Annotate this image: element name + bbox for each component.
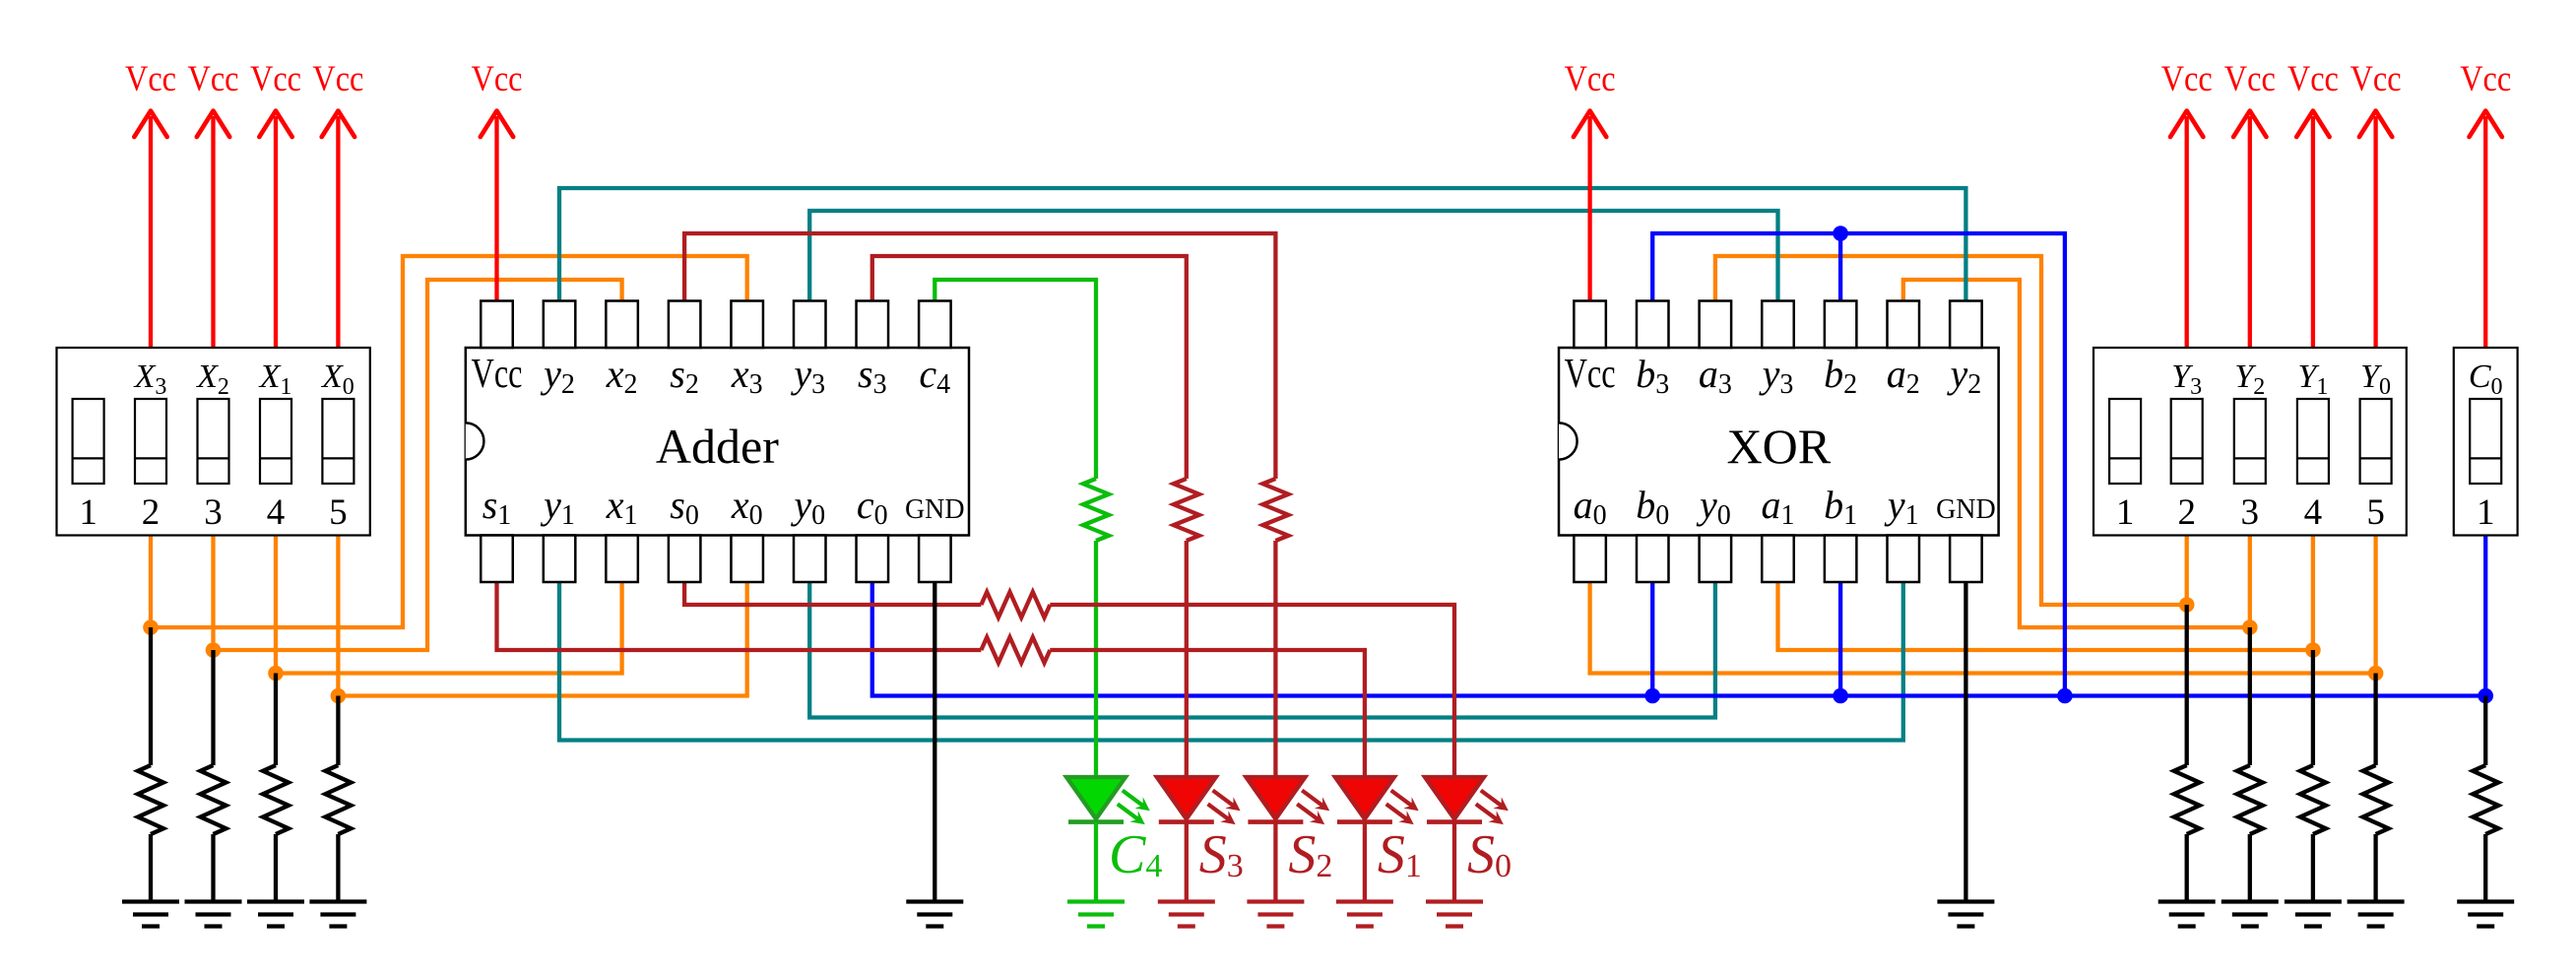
Vcc arrow above switch X1 — [250, 59, 301, 348]
wire Y1 switch to XOR a1 (orange net Y1) — [1778, 536, 2313, 651]
svg-text:Vcc: Vcc — [2351, 59, 2402, 99]
svg-text:XOR: XOR — [1727, 419, 1832, 474]
switch SW-Y position 1 — [2109, 399, 2141, 533]
wire X0 switch to Adder x0 (orange net X0) — [338, 536, 746, 696]
ground S2 LED (dark red) — [1247, 902, 1304, 927]
IC XOR bottom pin a1 — [1762, 483, 1795, 582]
switch SW-X position 5 (X0) — [320, 358, 354, 533]
wire X2 switch to Adder x2 (orange net X2) — [214, 280, 622, 650]
IC XOR bottom pin GND — [1936, 494, 1996, 582]
wire X1 switch to Adder x1 (orange net X1) — [276, 536, 622, 674]
Vcc arrow above switch C0 — [2460, 59, 2511, 348]
wire black pulldown Y0 — [2373, 674, 2377, 766]
junction dot orange Y3 — [2179, 597, 2195, 613]
wire XOR y2 to Adder y2 (teal) — [559, 188, 1965, 301]
resistor pulldown Y2 — [2237, 765, 2263, 834]
wire Adder s2 to S2 resistor/LED (dark red) — [684, 233, 1275, 479]
IC Adder top pin c4 — [919, 301, 951, 401]
junction dot blue at b1 — [1833, 688, 1848, 704]
resistor pulldown Y0 — [2363, 765, 2389, 834]
LED S1 — [1335, 777, 1422, 885]
switch SW-Y position 3 (Y2) — [2234, 358, 2266, 533]
wire S0 LED to ground (dark red) — [1452, 822, 1456, 902]
wire blue drop to XOR b0 — [1650, 582, 1654, 696]
wire XOR y3 to Adder y3 (teal) — [809, 211, 1777, 301]
IC Adder top pin s2 — [669, 301, 701, 401]
svg-text:GND: GND — [905, 494, 965, 525]
wire S1 LED to ground (dark red) — [1363, 822, 1367, 902]
IC XOR top pin b3 — [1636, 301, 1669, 401]
wire black pulldown X0 — [336, 696, 340, 766]
Vcc arrow above switch X0 — [312, 59, 363, 348]
resistor pulldown X1 — [263, 765, 289, 834]
svg-text:Vcc: Vcc — [188, 59, 239, 99]
svg-text:Vcc: Vcc — [125, 59, 176, 99]
junction dot orange X3 — [143, 619, 159, 635]
IC Adder bottom pin c0 — [857, 483, 889, 582]
wire Adder c4 to C4 resistor/LED (green) — [934, 280, 1096, 479]
wire resistor to ground Y3 — [2185, 834, 2189, 902]
wire S2 LED to ground (dark red) — [1273, 822, 1277, 902]
wire black pulldown X1 — [274, 674, 278, 766]
switch SW-Y position 4 (Y1) — [2297, 358, 2329, 533]
wire S3 resistor to LED — [1185, 541, 1189, 777]
wire Y0 switch to XOR a0 (orange net Y0) — [1590, 536, 2376, 674]
DIP switch block SW-C0 — [2454, 348, 2518, 536]
wire resistor to ground Y1 — [2311, 834, 2315, 902]
ground Y3 — [2158, 902, 2216, 927]
wire S2 resistor to LED — [1273, 541, 1277, 777]
ground S0 LED (dark red) — [1426, 902, 1483, 927]
wire Adder s0 row with resistor to S0 LED (dark red) — [684, 582, 981, 605]
ground X0 — [309, 902, 366, 927]
wire blue drop to XOR b2 — [1838, 233, 1842, 301]
resistor S3 (vertical) — [1174, 479, 1199, 541]
Vcc arrow above switch Y0 — [2351, 59, 2402, 348]
junction dot orange X2 — [206, 642, 222, 658]
wire black pulldown C0 — [2483, 696, 2487, 766]
resistor pulldown Y3 — [2174, 765, 2200, 834]
Vcc arrow XOR Vcc pin — [1565, 59, 1616, 301]
svg-text:GND: GND — [1936, 494, 1996, 525]
resistor S0 (horizontal) — [981, 592, 1050, 618]
ground Y0 — [2348, 902, 2405, 927]
svg-text:Adder: Adder — [656, 419, 779, 474]
junction dot orange Y0 — [2368, 666, 2384, 682]
wire black pulldown Y3 — [2185, 605, 2189, 765]
wire blue riser to XOR b3/b2 row — [1652, 233, 2065, 696]
wire resistor to ground X3 — [149, 834, 153, 902]
ground XOR GND — [1937, 902, 1994, 927]
svg-text:Vcc: Vcc — [250, 59, 301, 99]
wire resistor to ground X2 — [211, 834, 215, 902]
Vcc arrow above switch X2 — [188, 59, 239, 348]
ground Adder GND — [906, 902, 963, 927]
svg-text:1: 1 — [2116, 492, 2135, 533]
DIP switch block SW-X — [57, 348, 370, 536]
LED C4 — [1066, 777, 1162, 885]
switch SW-X position 3 (X2) — [195, 358, 229, 533]
resistor S2 (vertical) — [1262, 479, 1288, 541]
wire resistor to ground C0 — [2483, 834, 2487, 902]
resistor pulldown X2 — [201, 765, 226, 834]
wire Y3 switch to XOR a3 (orange net Y3) — [1715, 256, 2187, 605]
wire S0 resistor to LED drop — [1050, 605, 1454, 777]
IC XOR bottom pin y1 — [1884, 483, 1919, 582]
svg-text:3: 3 — [2241, 492, 2260, 533]
wire XOR y0 to Adder y0 (teal) — [809, 582, 1715, 718]
Vcc arrow above switch X3 — [125, 59, 176, 348]
IC XOR top pin a2 — [1887, 301, 1920, 401]
wire resistor to ground X0 — [336, 834, 340, 902]
IC Adder bottom pin x1 — [606, 483, 638, 582]
switch SW-X position 4 (X1) — [258, 358, 292, 533]
IC XOR top pin b2 — [1824, 301, 1857, 401]
switch SW-Y position 5 (Y0) — [2360, 358, 2392, 533]
IC Adder bottom pin y1 — [540, 483, 575, 582]
ground X2 — [185, 902, 242, 927]
IC Adder bottom pin s1 — [481, 483, 513, 582]
wire resistor to ground X1 — [274, 834, 278, 902]
resistor pulldown X0 — [325, 765, 351, 834]
wire resistor to ground Y0 — [2373, 834, 2377, 902]
wire X3 switch to Adder x3 (orange net X3) — [151, 256, 747, 627]
svg-text:Vcc: Vcc — [472, 59, 523, 99]
svg-text:Vcc: Vcc — [312, 59, 363, 99]
junction dot blue at b2 top row — [1833, 226, 1848, 241]
ground Y1 — [2285, 902, 2342, 927]
resistor pulldown Y1 — [2300, 765, 2326, 834]
svg-text:Vcc: Vcc — [472, 352, 523, 397]
junction dot blue at b0 — [1644, 688, 1660, 704]
IC XOR top pin Vcc — [1565, 301, 1616, 398]
IC XOR body — [1559, 348, 1999, 536]
svg-text:5: 5 — [2366, 492, 2385, 533]
wire C0 net (blue): C0 switch to Adder c0 and XOR b pins — [872, 536, 2485, 696]
wire XOR GND to ground (black) — [1964, 582, 1967, 902]
ground S3 LED (dark red) — [1158, 902, 1215, 927]
svg-text:Vcc: Vcc — [2287, 59, 2339, 99]
junction dot blue at C0 column — [2478, 688, 2493, 704]
IC Adder body — [466, 348, 969, 536]
LED S0 — [1425, 777, 1512, 885]
wire S1 resistor to LED drop — [1050, 650, 1365, 777]
Vcc arrow above switch Y1 — [2287, 59, 2339, 348]
IC XOR bottom pin b0 — [1636, 483, 1669, 582]
svg-text:Vcc: Vcc — [1565, 352, 1616, 397]
svg-text:1: 1 — [2477, 492, 2495, 533]
svg-text:5: 5 — [329, 492, 348, 533]
svg-text:4: 4 — [267, 492, 286, 533]
IC Adder top pin x2 — [606, 301, 638, 401]
switch SW-Y position 2 (Y3) — [2171, 358, 2203, 533]
svg-text:4: 4 — [2304, 492, 2323, 533]
switch SW-X position 1 — [73, 399, 104, 533]
junction dot orange X0 — [331, 688, 347, 704]
wire S3 LED to ground (dark red) — [1185, 822, 1189, 902]
Vcc arrow above switch Y3 — [2161, 59, 2213, 348]
svg-text:2: 2 — [2177, 492, 2196, 533]
DIP switch block SW-Y — [2093, 348, 2407, 536]
resistor pulldown X3 — [138, 765, 163, 834]
IC Adder top pin Vcc — [472, 301, 523, 398]
switch SW-C0 position 1 (C0) — [2469, 358, 2503, 533]
IC Adder bottom pin s0 — [669, 483, 701, 582]
wire resistor to ground Y2 — [2248, 834, 2252, 902]
ground X1 — [247, 902, 304, 927]
svg-text:Vcc: Vcc — [2161, 59, 2213, 99]
wire C4 LED to ground (green) — [1094, 822, 1098, 902]
svg-text:3: 3 — [204, 492, 223, 533]
ground Y2 — [2222, 902, 2279, 927]
IC Adder top pin y3 — [790, 301, 825, 401]
IC Adder top pin s3 — [857, 301, 889, 401]
wire Y2 switch to XOR a2 (orange net Y2) — [1903, 280, 2250, 627]
svg-text:Vcc: Vcc — [2224, 59, 2276, 99]
junction dot orange X1 — [268, 666, 284, 682]
IC Adder bottom pin GND — [905, 494, 965, 582]
Vcc arrow Adder Vcc pin — [472, 59, 523, 301]
switch SW-X position 2 (X3) — [133, 358, 167, 533]
wire blue drop to XOR b1 — [1838, 582, 1842, 696]
ground C4 LED (green) — [1067, 902, 1125, 927]
ground C0 — [2457, 902, 2514, 927]
wire black pulldown Y2 — [2248, 627, 2252, 765]
resistor pulldown C0 — [2473, 765, 2498, 834]
wire black pulldown X2 — [211, 650, 215, 765]
Vcc arrow above switch Y2 — [2224, 59, 2276, 348]
wire C4 resistor to LED — [1094, 541, 1098, 777]
IC Adder top pin y2 — [540, 301, 575, 401]
wire Adder s3 to S3 resistor/LED (dark red) — [872, 256, 1187, 479]
wire XOR y1 to Adder y1 (teal) — [559, 582, 1903, 741]
IC XOR top pin a3 — [1699, 301, 1732, 401]
resistor C4 (vertical, green) — [1083, 479, 1109, 541]
IC XOR bottom pin b1 — [1824, 483, 1857, 582]
IC XOR top pin y2 — [1947, 301, 1982, 401]
junction dot blue at riser — [2057, 688, 2073, 704]
svg-text:2: 2 — [142, 492, 161, 533]
wire black pulldown X3 — [149, 627, 153, 765]
svg-text:Vcc: Vcc — [1565, 59, 1616, 99]
wire black pulldown Y1 — [2311, 650, 2315, 765]
IC Adder top pin x3 — [731, 301, 763, 401]
ground X3 — [122, 902, 179, 927]
IC Adder bottom pin x0 — [731, 483, 763, 582]
junction dot orange Y2 — [2242, 619, 2258, 635]
LED S2 — [1246, 777, 1332, 885]
wire Adder s1 row with resistor to S1 LED (dark red) — [497, 582, 982, 650]
ground S1 LED (dark red) — [1336, 902, 1393, 927]
wire Adder GND to ground (black) — [933, 582, 936, 902]
IC XOR bottom pin y0 — [1696, 483, 1731, 582]
junction dot orange Y1 — [2305, 642, 2321, 658]
svg-text:Vcc: Vcc — [2460, 59, 2511, 99]
IC Adder bottom pin y0 — [790, 483, 825, 582]
resistor S1 (horizontal) — [981, 637, 1050, 663]
IC XOR bottom pin a0 — [1574, 483, 1607, 582]
svg-text:1: 1 — [79, 492, 97, 533]
IC XOR top pin y3 — [1759, 301, 1794, 401]
LED S3 — [1157, 777, 1244, 885]
